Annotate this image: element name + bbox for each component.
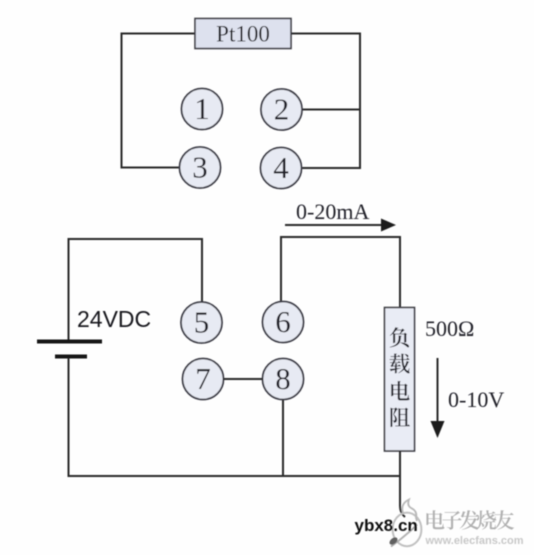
label 阻 (load resistor char 4) <box>390 407 409 427</box>
wire: bottom bus <box>68 475 402 477</box>
terminal 5 <box>181 302 222 343</box>
svg-text:24VDC: 24VDC <box>77 306 151 332</box>
sensor Pt100 <box>195 19 291 49</box>
wire: terminal 8 down to bottom bus <box>282 400 284 477</box>
watermark swirl circle <box>393 513 422 547</box>
svg-text:3: 3 <box>192 150 208 185</box>
wire: top bus from terminal 6 up and over to load resistor <box>281 237 400 307</box>
watermark swoosh <box>391 525 417 547</box>
wire: terminal 4 to right bus <box>301 167 361 169</box>
voltage arrow 0-10V <box>431 358 445 438</box>
label 载 (load resistor char 2) <box>390 354 410 374</box>
wire: battery negative down to bottom bus <box>68 358 70 477</box>
svg-text:6: 6 <box>275 304 291 339</box>
svg-text:8: 8 <box>275 361 291 396</box>
svg-text:www.elecfans.com: www.elecfans.com <box>425 535 524 547</box>
svg-text:Pt100: Pt100 <box>216 22 270 47</box>
svg-text:0-10V: 0-10V <box>448 387 504 412</box>
wire: load resistor bottom down through bottom bus into watermark <box>400 451 405 517</box>
svg-text:7: 7 <box>195 361 211 396</box>
terminal 2 <box>261 89 302 130</box>
label 电 (load resistor char 3) <box>391 381 409 400</box>
terminal 3 <box>180 147 221 188</box>
resistor: load resistor box <box>385 308 415 452</box>
svg-text:ybx8.cn: ybx8.cn <box>355 516 418 535</box>
svg-text:500Ω: 500Ω <box>425 316 474 341</box>
watermark 电 (elecfans char 1) <box>426 510 444 529</box>
terminal 1 <box>182 89 223 130</box>
terminal 4 <box>261 148 302 189</box>
watermark ink blob <box>388 536 399 546</box>
svg-text:5: 5 <box>194 305 210 340</box>
watermark swoosh inner <box>398 532 410 542</box>
svg-text:1: 1 <box>194 91 210 126</box>
wire: Pt100 left lead down to terminal 3 <box>122 34 196 168</box>
terminal 7 <box>183 359 224 400</box>
svg-text:0-20mA: 0-20mA <box>296 199 369 224</box>
wire: battery positive up and over to terminal 5 <box>69 239 203 341</box>
wire: Pt100 right lead over to right bus <box>291 34 360 169</box>
watermark 子 (elecfans char 2) <box>442 511 461 530</box>
svg-text:2: 2 <box>274 92 290 127</box>
watermark flame leaf <box>402 500 417 522</box>
watermark 友 (elecfans char 5) <box>494 510 514 530</box>
terminal 8 <box>263 359 304 400</box>
watermark 烧 (elecfans char 4) <box>477 510 497 529</box>
watermark 发 (elecfans char 3) <box>460 510 480 530</box>
wire: terminal 2 to right bus <box>302 109 361 111</box>
label 负 (load resistor char 1) <box>390 327 409 347</box>
wire: terminal 7 to terminal 8 <box>223 378 263 380</box>
terminal 6 <box>263 302 304 343</box>
battery 24VDC <box>37 342 102 357</box>
current flow arrow 0-20mA <box>285 219 396 232</box>
svg-text:4: 4 <box>273 150 289 185</box>
